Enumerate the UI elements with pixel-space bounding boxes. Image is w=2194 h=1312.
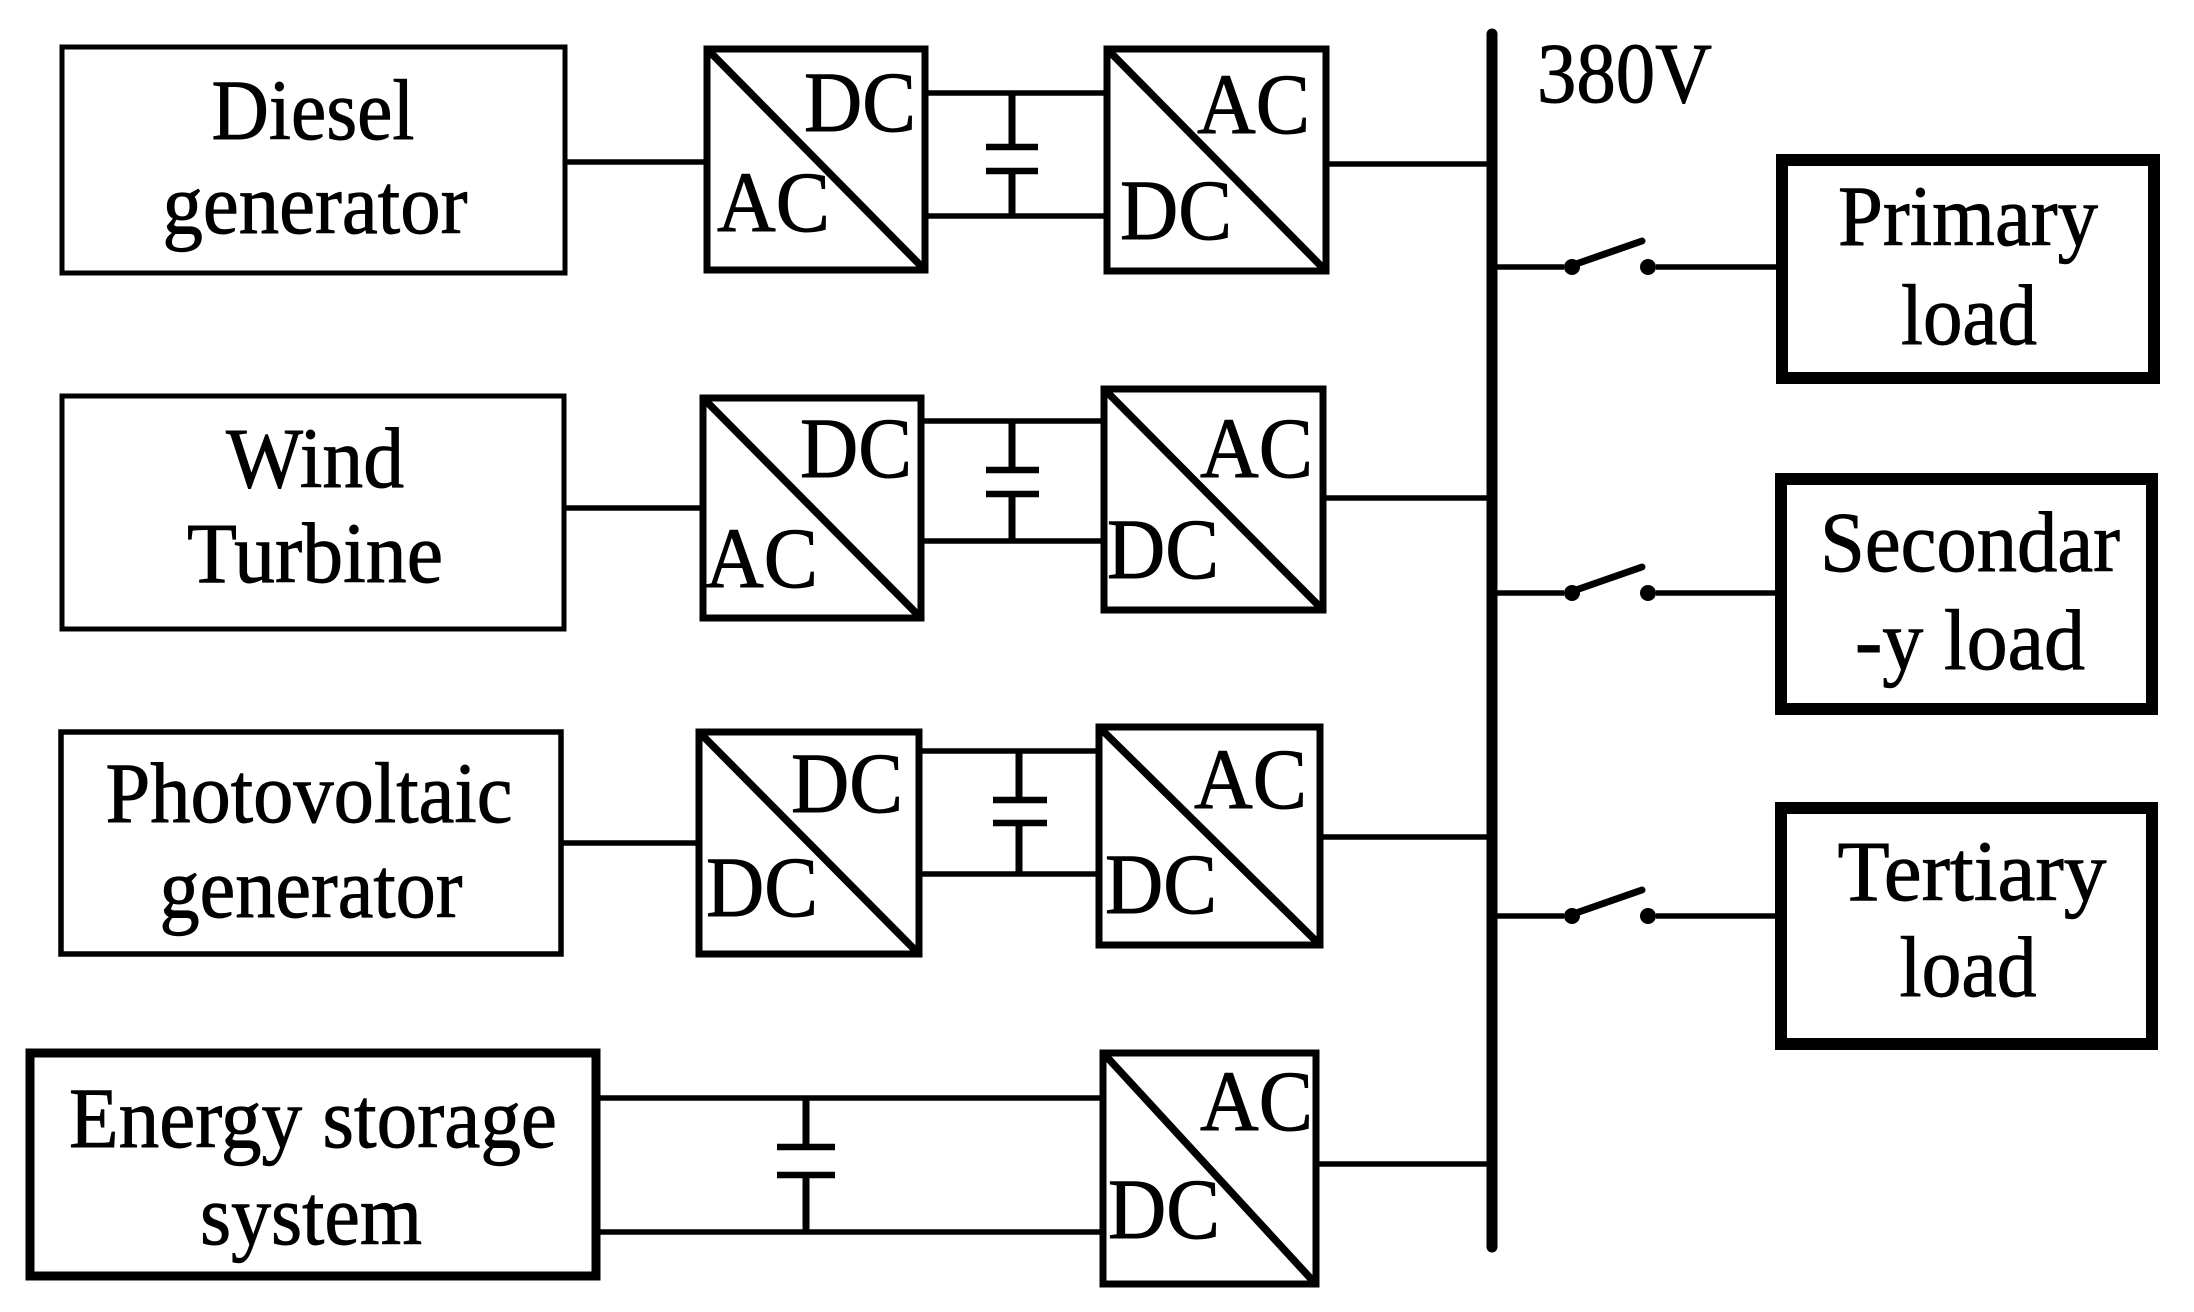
svg-text:AC: AC [1197, 56, 1310, 152]
svg-text:DC: DC [706, 839, 818, 935]
svg-text:DC: DC [800, 400, 912, 496]
svg-text:Energy storage: Energy storage [69, 1070, 557, 1166]
svg-text:-y load: -y load [1855, 592, 2085, 688]
svg-text:380V: 380V [1537, 25, 1712, 121]
svg-text:generator: generator [163, 156, 468, 252]
svg-text:load: load [1901, 267, 2037, 363]
svg-text:AC: AC [1200, 400, 1313, 496]
svg-text:DC: DC [791, 735, 903, 831]
svg-text:AC: AC [1194, 731, 1307, 827]
svg-text:AC: AC [705, 510, 818, 606]
svg-text:Primary: Primary [1838, 168, 2098, 264]
svg-text:DC: DC [1105, 836, 1217, 932]
svg-text:generator: generator [160, 840, 463, 936]
svg-text:DC: DC [1108, 1161, 1220, 1257]
svg-text:DC: DC [804, 54, 916, 150]
svg-text:load: load [1900, 919, 2037, 1015]
svg-text:AC: AC [1200, 1053, 1313, 1149]
svg-text:Tertiary: Tertiary [1838, 823, 2107, 919]
svg-text:AC: AC [717, 154, 830, 250]
svg-text:Secondar: Secondar [1820, 494, 2120, 590]
svg-text:system: system [200, 1167, 422, 1263]
svg-text:DC: DC [1107, 501, 1219, 597]
svg-text:Photovoltaic: Photovoltaic [106, 745, 513, 841]
svg-text:DC: DC [1120, 162, 1232, 258]
svg-text:Wind: Wind [226, 410, 404, 506]
svg-text:Diesel: Diesel [212, 62, 415, 158]
svg-text:Turbine: Turbine [187, 505, 443, 601]
